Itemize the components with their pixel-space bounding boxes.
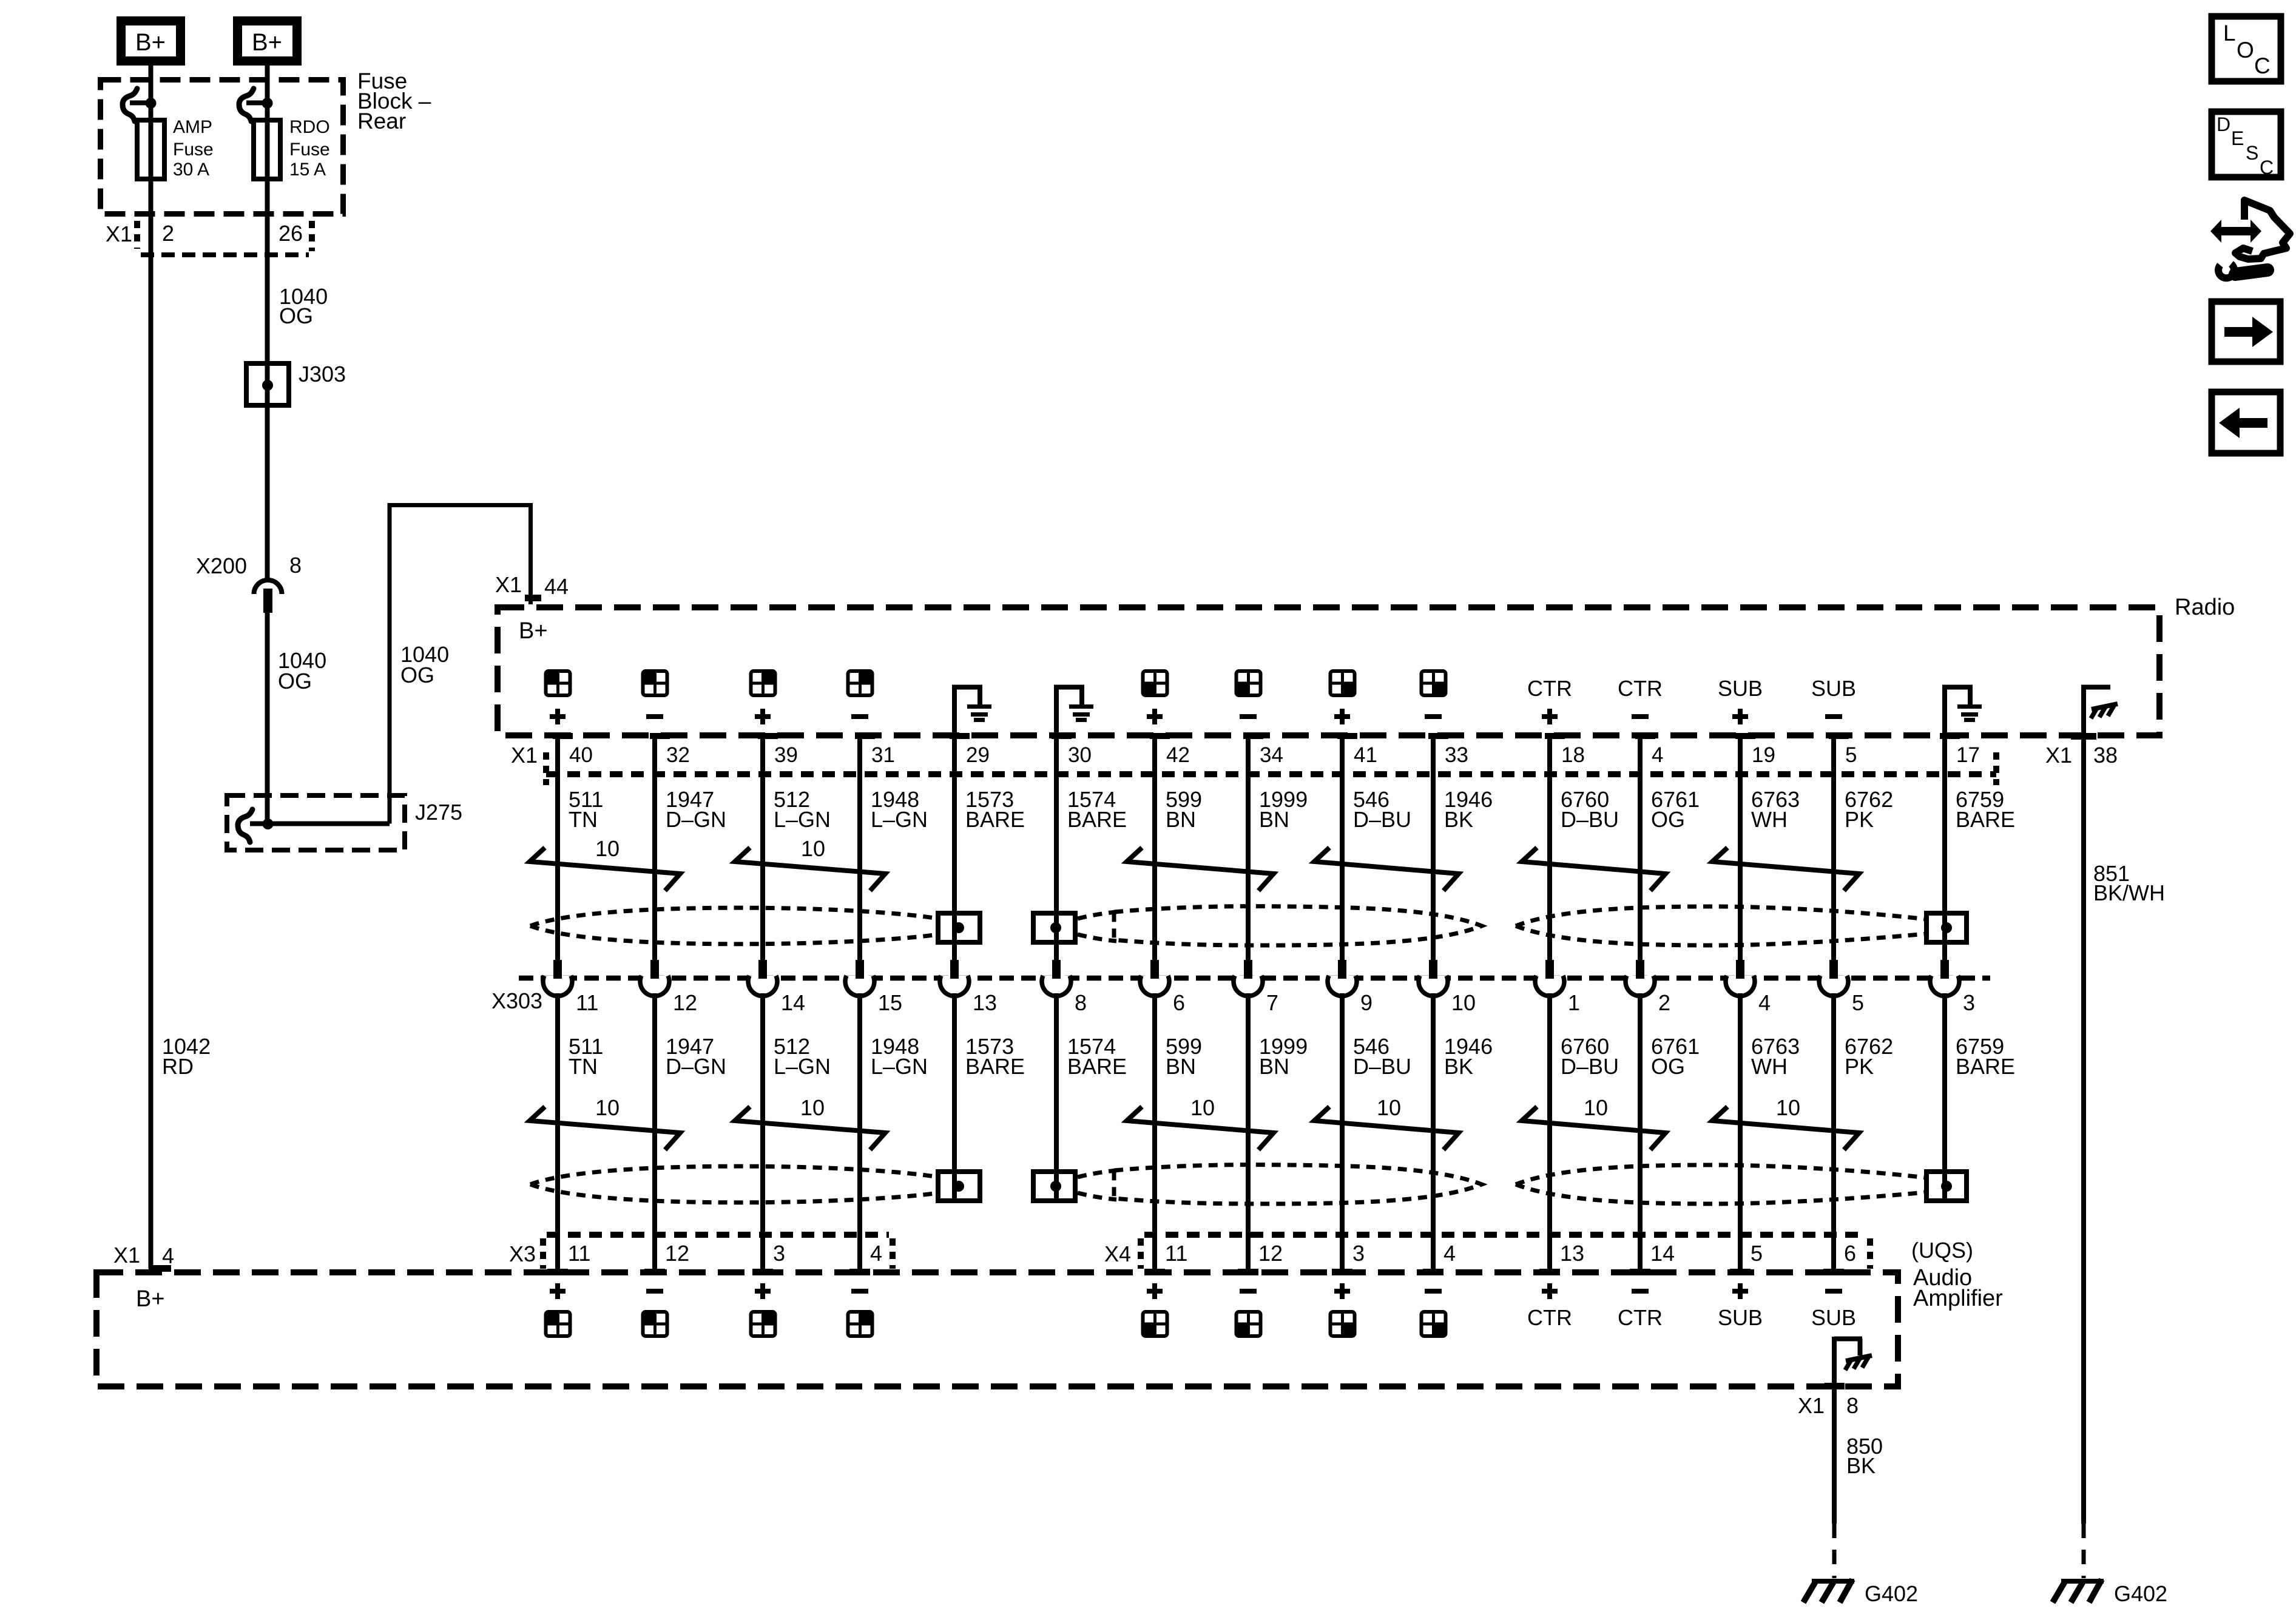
svg-text:X1: X1 bbox=[495, 572, 522, 597]
connector X1 pin 44 at radio bbox=[525, 595, 541, 601]
icon box DESC bbox=[2212, 112, 2281, 177]
twisted pair symbol 599/1999 lower with label 10 bbox=[1127, 1107, 1274, 1150]
svg-text:Amplifier: Amplifier bbox=[1913, 1286, 2003, 1311]
svg-text:19: 19 bbox=[1752, 743, 1775, 767]
svg-text:C: C bbox=[2260, 157, 2274, 178]
svg-text:11: 11 bbox=[576, 990, 598, 1015]
svg-text:10: 10 bbox=[1451, 990, 1476, 1015]
speaker icon above radio pin 34 bbox=[1235, 670, 1262, 697]
connector X303 pin 10 bbox=[1419, 976, 1448, 996]
svg-text:OG: OG bbox=[400, 663, 434, 687]
terminal clip at RDO fuse bbox=[239, 89, 254, 121]
svg-text:X303: X303 bbox=[491, 988, 542, 1013]
svg-text:10: 10 bbox=[1190, 1095, 1215, 1120]
svg-text:PK: PK bbox=[1845, 807, 1874, 832]
svg-text:4: 4 bbox=[162, 1243, 174, 1268]
twisted pair symbol 512/1948 lower with label 10 bbox=[735, 1107, 885, 1150]
svg-text:9: 9 bbox=[1360, 990, 1373, 1015]
pin 30 of radio connector X1 bbox=[1052, 733, 1072, 739]
amplifier entry pin tick col 9 bbox=[1332, 1269, 1352, 1275]
svg-text:L: L bbox=[2223, 21, 2236, 46]
svg-text:CTR: CTR bbox=[1618, 676, 1663, 701]
connector X303 pin 8 bbox=[1042, 976, 1071, 996]
shield connection box on wire 6759 lower bbox=[1926, 1172, 1967, 1201]
svg-text:TN: TN bbox=[569, 807, 598, 832]
svg-text:32: 32 bbox=[666, 743, 690, 767]
svg-text:5: 5 bbox=[1852, 990, 1864, 1015]
wire 1947 D–GN lower segment bbox=[652, 993, 657, 1269]
amplifier entry pin tick col 1 bbox=[547, 1269, 568, 1275]
svg-text:B+: B+ bbox=[135, 29, 166, 56]
svg-text:B+: B+ bbox=[136, 1286, 165, 1312]
svg-text:OG: OG bbox=[1651, 807, 1685, 832]
ground G402 left bbox=[1812, 1579, 1854, 1584]
connector X303 pin 14 bbox=[748, 976, 777, 996]
pin 42 of radio connector X1 bbox=[1150, 733, 1170, 739]
svg-text:D–BU: D–BU bbox=[1561, 807, 1619, 832]
polarity sign at amplifier col 13 bbox=[1732, 1283, 1748, 1299]
svg-text:17: 17 bbox=[1956, 743, 1980, 767]
svg-text:Radio: Radio bbox=[2175, 595, 2235, 620]
ground symbol at radio pin 29 bbox=[952, 687, 957, 735]
svg-text:41: 41 bbox=[1354, 743, 1377, 767]
wire 511 TN upper segment bbox=[555, 736, 560, 961]
pin 41 of radio connector X1 bbox=[1337, 733, 1357, 739]
svg-text:34: 34 bbox=[1260, 743, 1283, 767]
svg-text:TN: TN bbox=[569, 1054, 598, 1079]
svg-text:BK: BK bbox=[1444, 1054, 1473, 1079]
polarity sign at amplifier col 2 bbox=[646, 1289, 663, 1294]
svg-text:3: 3 bbox=[1352, 1241, 1365, 1266]
amplifier entry pin tick col 12 bbox=[1630, 1269, 1650, 1275]
twisted pair symbol 6763/6762 lower with label 10 bbox=[1712, 1107, 1859, 1150]
pin 32 of radio connector X1 bbox=[650, 733, 670, 739]
shield connection box on wire 1574 upper bbox=[1033, 913, 1075, 942]
twisted pair symbol 546/1946 lower with label 10 bbox=[1314, 1107, 1459, 1150]
connector X303 row bbox=[519, 976, 1990, 981]
svg-text:G402: G402 bbox=[2114, 1581, 2167, 1606]
polarity sign at radio pin 42 bbox=[1147, 709, 1163, 724]
svg-text:44: 44 bbox=[544, 574, 569, 599]
svg-text:10: 10 bbox=[595, 1095, 620, 1120]
svg-text:X1: X1 bbox=[113, 1243, 140, 1268]
wire 599 BN lower segment bbox=[1152, 993, 1157, 1269]
svg-text:OG: OG bbox=[1651, 1054, 1685, 1079]
icon hand with wrench bbox=[2210, 200, 2290, 278]
svg-text:D–BU: D–BU bbox=[1353, 1054, 1411, 1079]
polarity sign at amplifier col 7 bbox=[1147, 1283, 1163, 1299]
twisted pair symbol 546/1946 upper bbox=[1314, 848, 1459, 891]
svg-text:12: 12 bbox=[673, 990, 697, 1015]
svg-text:(UQS): (UQS) bbox=[1911, 1238, 1973, 1263]
twisted pair symbol 6760/6761 lower with label 10 bbox=[1522, 1107, 1666, 1150]
shield connection box on wire 6759 upper bbox=[1926, 913, 1967, 942]
pin 40 of radio connector X1 bbox=[553, 733, 573, 739]
speaker icon inside amplifier col 1 bbox=[545, 1311, 572, 1337]
svg-text:10: 10 bbox=[1776, 1095, 1800, 1120]
polarity sign at amplifier col 10 bbox=[1425, 1289, 1442, 1294]
wire 6763 WH lower segment bbox=[1738, 993, 1743, 1269]
polarity sign at radio pin 32 bbox=[646, 714, 663, 719]
svg-text:D–BU: D–BU bbox=[1561, 1054, 1619, 1079]
icon box arrow left bbox=[2212, 392, 2280, 453]
svg-text:X1: X1 bbox=[2045, 743, 2072, 768]
power symbol B+ (RDO feed) bbox=[238, 21, 297, 61]
wire 6762 PK lower segment bbox=[1831, 993, 1836, 1269]
svg-text:X1: X1 bbox=[511, 743, 538, 768]
svg-text:BARE: BARE bbox=[1956, 1054, 2015, 1079]
twisted pair symbol 512/1948 upper with label 10 bbox=[735, 848, 885, 891]
pin 4 of amplifier connector X1 bbox=[149, 1265, 171, 1272]
svg-text:10: 10 bbox=[801, 836, 825, 861]
polarity sign at radio pin 40 bbox=[550, 709, 566, 724]
speaker icon above radio pin 33 bbox=[1420, 670, 1447, 697]
wire 6760 D–BU lower segment bbox=[1547, 993, 1552, 1269]
connector X303 pin 11 bbox=[543, 976, 572, 996]
speaker icon inside amplifier col 10 bbox=[1420, 1311, 1447, 1337]
svg-text:Fuse: Fuse bbox=[173, 140, 214, 160]
svg-text:12: 12 bbox=[665, 1241, 689, 1266]
svg-text:BARE: BARE bbox=[1067, 1054, 1127, 1079]
wire 1042 RD vertical from B+ to amplifier bbox=[149, 66, 154, 1269]
wire 850 BK bbox=[1832, 1386, 1837, 1524]
svg-text:Fuse: Fuse bbox=[289, 140, 330, 160]
svg-text:BARE: BARE bbox=[965, 807, 1025, 832]
amplifier entry pin tick col 10 bbox=[1423, 1269, 1443, 1275]
polarity sign at radio pin 5 bbox=[1825, 714, 1842, 719]
svg-text:15: 15 bbox=[878, 990, 902, 1015]
polarity sign at amplifier col 4 bbox=[851, 1289, 868, 1294]
svg-text:4: 4 bbox=[870, 1241, 882, 1266]
amplifier entry pin tick col 4 bbox=[849, 1269, 870, 1275]
pin 29 of radio connector X1 bbox=[950, 733, 970, 739]
svg-text:2: 2 bbox=[1658, 990, 1670, 1015]
svg-text:L–GN: L–GN bbox=[774, 1054, 831, 1079]
svg-text:CTR: CTR bbox=[1527, 676, 1572, 701]
svg-text:E: E bbox=[2231, 127, 2244, 149]
wire 1574 BARE upper segment bbox=[1054, 736, 1059, 961]
svg-text:L–GN: L–GN bbox=[871, 1054, 928, 1079]
amplifier entry pin tick col 13 bbox=[1730, 1269, 1751, 1275]
svg-text:D–BU: D–BU bbox=[1353, 807, 1411, 832]
svg-text:SUB: SUB bbox=[1718, 676, 1763, 701]
pin 33 of radio connector X1 bbox=[1428, 733, 1448, 739]
amplifier entry pin tick col 3 bbox=[752, 1269, 773, 1275]
svg-text:J275: J275 bbox=[415, 800, 462, 825]
splice J275 dashed box bbox=[227, 795, 405, 850]
shield drain oval front speakers lower bbox=[530, 1166, 938, 1184]
svg-text:5: 5 bbox=[1751, 1241, 1763, 1266]
pin 19 of radio connector X1 bbox=[1735, 733, 1755, 739]
terminal clip at AMP fuse bbox=[123, 89, 137, 121]
connector X303 pin 9 bbox=[1328, 976, 1357, 996]
svg-text:J303: J303 bbox=[299, 362, 346, 387]
shield drain oval rear speakers lower bbox=[1114, 1165, 1482, 1204]
wire 1573 BARE upper segment bbox=[952, 736, 957, 961]
svg-text:BN: BN bbox=[1166, 1054, 1196, 1079]
svg-text:BARE: BARE bbox=[965, 1054, 1025, 1079]
polarity sign at radio pin 19 bbox=[1732, 709, 1748, 724]
wire 512 L–GN upper segment bbox=[760, 736, 765, 961]
amplifier internal ground bbox=[1832, 1337, 1837, 1386]
svg-text:Rear: Rear bbox=[357, 109, 406, 133]
svg-text:2: 2 bbox=[162, 221, 174, 246]
polarity sign at amplifier col 14 bbox=[1825, 1289, 1842, 1294]
wire 1948 L–GN lower segment bbox=[857, 993, 862, 1269]
svg-text:BK: BK bbox=[1846, 1453, 1876, 1478]
speaker icon above radio pin 42 bbox=[1142, 670, 1169, 697]
svg-text:8: 8 bbox=[289, 553, 302, 578]
pin 31 of radio connector X1 bbox=[855, 733, 875, 739]
radio dashed box bbox=[498, 607, 2159, 735]
wire 6761 OG lower segment bbox=[1638, 993, 1643, 1269]
svg-text:12: 12 bbox=[1258, 1241, 1283, 1266]
svg-text:L–GN: L–GN bbox=[871, 807, 928, 832]
svg-text:X1: X1 bbox=[1798, 1393, 1825, 1418]
svg-text:BK/WH: BK/WH bbox=[2093, 880, 2165, 905]
svg-text:33: 33 bbox=[1445, 743, 1468, 767]
svg-text:X4: X4 bbox=[1104, 1241, 1131, 1266]
shield drain oval CTR/SUB upper bbox=[1516, 906, 1926, 926]
shield connection box on wire 1573 lower bbox=[938, 1172, 980, 1201]
svg-text:3: 3 bbox=[1963, 990, 1975, 1015]
svg-text:AMP: AMP bbox=[173, 117, 212, 137]
svg-text:WH: WH bbox=[1751, 807, 1788, 832]
svg-text:4: 4 bbox=[1443, 1241, 1456, 1266]
svg-text:14: 14 bbox=[781, 990, 805, 1015]
shield drain oval rear speakers upper bbox=[1114, 906, 1482, 945]
svg-text:X200: X200 bbox=[196, 553, 247, 578]
wire 1947 D–GN upper segment bbox=[652, 736, 657, 961]
ground symbol at radio pin 30 bbox=[1054, 687, 1059, 735]
svg-text:7: 7 bbox=[1266, 990, 1278, 1015]
twisted pair symbol 6760/6761 upper bbox=[1522, 848, 1666, 891]
svg-text:39: 39 bbox=[774, 743, 798, 767]
polarity sign at amplifier col 11 bbox=[1542, 1283, 1558, 1299]
polarity sign at radio pin 31 bbox=[851, 714, 868, 719]
svg-text:1: 1 bbox=[1568, 990, 1580, 1015]
svg-text:BARE: BARE bbox=[1067, 807, 1127, 832]
connector X303 pin 7 bbox=[1234, 976, 1263, 996]
svg-text:4: 4 bbox=[1652, 743, 1663, 767]
svg-text:29: 29 bbox=[966, 743, 990, 767]
wire 1573 BARE lower segment bbox=[952, 993, 957, 1201]
wire 1040 OG vertical from B+ through fuse bbox=[265, 66, 270, 824]
svg-text:D–GN: D–GN bbox=[666, 1054, 726, 1079]
connector X303 pin 3 bbox=[1930, 976, 1959, 996]
polarity sign at radio pin 18 bbox=[1542, 709, 1558, 724]
wire 546 D–BU lower segment bbox=[1340, 993, 1345, 1269]
svg-text:CTR: CTR bbox=[1618, 1305, 1663, 1330]
speaker icon inside amplifier col 7 bbox=[1142, 1311, 1169, 1337]
speaker icon inside amplifier col 4 bbox=[847, 1311, 874, 1337]
svg-text:10: 10 bbox=[1377, 1095, 1401, 1120]
svg-text:30: 30 bbox=[1068, 743, 1092, 767]
svg-text:B+: B+ bbox=[252, 29, 282, 56]
speaker icon inside amplifier col 3 bbox=[750, 1311, 777, 1337]
speaker icon above radio pin 32 bbox=[642, 670, 669, 697]
svg-text:SUB: SUB bbox=[1718, 1305, 1763, 1330]
svg-text:G402: G402 bbox=[1865, 1581, 1918, 1606]
svg-text:3: 3 bbox=[773, 1241, 785, 1266]
svg-text:10: 10 bbox=[800, 1095, 825, 1120]
wire 6763 WH upper segment bbox=[1738, 736, 1743, 961]
pin 17 of radio connector X1 bbox=[1940, 733, 1960, 739]
speaker icon inside amplifier col 8 bbox=[1235, 1311, 1262, 1337]
speaker icon above radio pin 41 bbox=[1329, 670, 1356, 697]
fuse RDO Fuse 15 A bbox=[254, 120, 280, 179]
speaker icon above radio pin 31 bbox=[847, 670, 874, 697]
pin 8 of amplifier connector X1 bbox=[1825, 1383, 1845, 1389]
svg-text:14: 14 bbox=[1650, 1241, 1675, 1266]
svg-text:RDO: RDO bbox=[289, 117, 330, 137]
speaker icon above radio pin 39 bbox=[750, 670, 777, 697]
pin 4 of radio connector X1 bbox=[1635, 733, 1655, 739]
svg-text:X3: X3 bbox=[509, 1241, 536, 1266]
svg-text:10: 10 bbox=[595, 836, 620, 861]
wire 1946 BK upper segment bbox=[1431, 736, 1436, 961]
wire 546 D–BU upper segment bbox=[1340, 736, 1345, 961]
svg-text:BARE: BARE bbox=[1956, 807, 2015, 832]
svg-text:6: 6 bbox=[1844, 1241, 1856, 1266]
shield connection box on wire 1573 upper bbox=[938, 913, 980, 942]
wire 1040 OG branch up to radio bbox=[388, 503, 392, 824]
polarity sign at radio pin 33 bbox=[1425, 714, 1442, 719]
svg-text:BN: BN bbox=[1259, 807, 1289, 832]
shield drain oval CTR/SUB lower bbox=[1516, 1165, 1926, 1184]
connector X303 pin 1 bbox=[1535, 976, 1564, 996]
polarity sign at amplifier col 9 bbox=[1334, 1283, 1350, 1299]
polarity sign at radio pin 39 bbox=[755, 709, 771, 724]
ground symbol at radio pin 38 bbox=[2081, 687, 2086, 735]
svg-text:D: D bbox=[2217, 113, 2230, 135]
svg-text:11: 11 bbox=[1165, 1241, 1187, 1266]
audio amplifier dashed box bbox=[96, 1272, 1898, 1386]
svg-text:42: 42 bbox=[1166, 743, 1190, 767]
svg-text:30 A: 30 A bbox=[173, 160, 209, 180]
amplifier entry pin tick col 14 bbox=[1823, 1269, 1844, 1275]
connector X303 pin 5 bbox=[1819, 976, 1848, 996]
amplifier entry pin tick col 7 bbox=[1144, 1269, 1165, 1275]
shield drain oval front speakers upper bbox=[530, 908, 938, 926]
svg-text:6: 6 bbox=[1173, 990, 1185, 1015]
pin 5 of radio connector X1 bbox=[1829, 733, 1849, 739]
fuse AMP Fuse 30 A bbox=[137, 120, 164, 179]
amplifier entry pin tick col 2 bbox=[644, 1269, 665, 1275]
pin 18 of radio connector X1 bbox=[1545, 733, 1565, 739]
polarity sign at amplifier col 8 bbox=[1240, 1289, 1257, 1294]
svg-text:BN: BN bbox=[1166, 807, 1196, 832]
ground G402 right bbox=[2061, 1579, 2104, 1584]
svg-text:RD: RD bbox=[162, 1054, 194, 1079]
connector X200 pin 8 bbox=[254, 580, 282, 594]
fuse block - rear dashed box bbox=[101, 80, 343, 214]
wire 1999 BN upper segment bbox=[1246, 736, 1251, 961]
connector X303 pin 4 bbox=[1726, 976, 1755, 996]
terminal clip in J275 bbox=[238, 809, 252, 842]
wire 6760 D–BU upper segment bbox=[1547, 736, 1552, 961]
icon box LOC bbox=[2212, 16, 2281, 81]
polarity sign at amplifier col 3 bbox=[755, 1283, 771, 1299]
wire 1999 BN lower segment bbox=[1246, 993, 1251, 1269]
svg-text:BK: BK bbox=[1444, 807, 1473, 832]
twisted pair symbol 599/1999 upper bbox=[1127, 848, 1274, 891]
splice J303 bbox=[246, 363, 289, 405]
connector X303 pin 15 bbox=[845, 976, 874, 996]
svg-text:PK: PK bbox=[1845, 1054, 1874, 1079]
wire 6759 BARE lower segment bbox=[1942, 993, 1947, 1201]
twisted pair symbol 511/1947 lower with label 10 bbox=[530, 1107, 680, 1150]
svg-text:18: 18 bbox=[1561, 743, 1585, 767]
speaker icon inside amplifier col 9 bbox=[1329, 1311, 1356, 1337]
wire 851 BK/WH from radio pin 38 bbox=[2081, 738, 2086, 1524]
ground symbol at radio pin 17 bbox=[1942, 687, 1947, 735]
wire 511 TN lower segment bbox=[555, 993, 560, 1269]
wire 512 L–GN lower segment bbox=[760, 993, 765, 1269]
svg-text:40: 40 bbox=[569, 743, 593, 767]
svg-text:38: 38 bbox=[2093, 743, 2118, 768]
wire 6759 BARE upper segment bbox=[1942, 736, 1947, 961]
svg-text:WH: WH bbox=[1751, 1054, 1788, 1079]
pin 34 of radio connector X1 bbox=[1243, 733, 1263, 739]
polarity sign at radio pin 41 bbox=[1334, 709, 1350, 724]
svg-text:31: 31 bbox=[871, 743, 895, 767]
wire 1574 BARE lower segment bbox=[1054, 993, 1059, 1201]
svg-text:15 A: 15 A bbox=[289, 160, 326, 180]
amplifier entry pin tick col 11 bbox=[1539, 1269, 1560, 1275]
wire 6761 OG upper segment bbox=[1638, 736, 1643, 961]
icon box arrow right bbox=[2212, 302, 2280, 362]
svg-text:5: 5 bbox=[1845, 743, 1857, 767]
connector X303 pin 2 bbox=[1626, 976, 1655, 996]
wire 1948 L–GN upper segment bbox=[857, 736, 862, 961]
svg-text:BN: BN bbox=[1259, 1054, 1289, 1079]
speaker icon above radio pin 40 bbox=[545, 670, 572, 697]
connector X303 pin 6 bbox=[1140, 976, 1169, 996]
polarity sign at amplifier col 1 bbox=[550, 1283, 566, 1299]
svg-text:8: 8 bbox=[1075, 990, 1087, 1015]
wire segment in J275 to branch bbox=[250, 822, 390, 826]
svg-text:CTR: CTR bbox=[1527, 1305, 1572, 1330]
svg-text:26: 26 bbox=[279, 221, 303, 246]
svg-text:10: 10 bbox=[1584, 1095, 1608, 1120]
svg-text:SUB: SUB bbox=[1811, 676, 1856, 701]
polarity sign at radio pin 4 bbox=[1632, 714, 1649, 719]
svg-text:X1: X1 bbox=[106, 221, 132, 246]
pin 38 of radio connector X1 bbox=[2071, 733, 2096, 740]
connector X303 pin 12 bbox=[640, 976, 669, 996]
connector X303 pin 13 bbox=[940, 976, 969, 996]
polarity sign at radio pin 34 bbox=[1240, 714, 1257, 719]
power symbol B+ (AMP feed) bbox=[121, 21, 181, 61]
pin 39 of radio connector X1 bbox=[758, 733, 778, 739]
svg-text:B+: B+ bbox=[519, 618, 548, 644]
svg-text:OG: OG bbox=[278, 669, 312, 694]
twisted pair symbol 511/1947 upper with label 10 bbox=[530, 848, 680, 891]
speaker icon inside amplifier col 2 bbox=[642, 1311, 669, 1337]
wire 1946 BK lower segment bbox=[1431, 993, 1436, 1269]
wire 6762 PK upper segment bbox=[1831, 736, 1836, 961]
svg-text:L–GN: L–GN bbox=[774, 807, 831, 832]
svg-text:C: C bbox=[2254, 53, 2271, 78]
svg-text:O: O bbox=[2237, 38, 2254, 62]
wire 599 BN upper segment bbox=[1152, 736, 1157, 961]
svg-text:13: 13 bbox=[1560, 1241, 1584, 1266]
twisted pair symbol 6763/6762 upper bbox=[1712, 848, 1859, 891]
svg-text:D–GN: D–GN bbox=[666, 807, 726, 832]
shield connection box on wire 1574 lower bbox=[1033, 1172, 1075, 1201]
amplifier entry pin tick col 8 bbox=[1238, 1269, 1258, 1275]
